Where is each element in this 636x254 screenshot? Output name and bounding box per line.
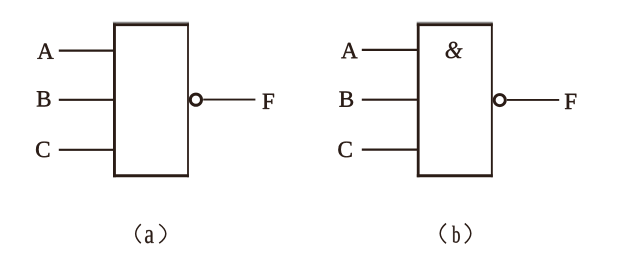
- gate (a) top-edge gray highlight: [113, 22, 189, 24]
- gate (a) body fill: [113, 23, 189, 177]
- wire input A (gate b): [362, 49, 419, 51]
- caption (a) letter a: [145, 230, 154, 243]
- label F (gate b): [565, 94, 576, 109]
- inversion bubble (gate b): [494, 95, 505, 106]
- gate (a) body top edge: [113, 23, 189, 26]
- caption (a) left parenthesis: [136, 224, 141, 243]
- gate (b) body top edge: [417, 23, 493, 26]
- label C (gate a): [36, 142, 49, 158]
- AND symbol &amp; (gate b): [446, 42, 463, 58]
- wire output F (gate b): [507, 99, 559, 101]
- gate (b) top-edge gray highlight: [417, 22, 493, 24]
- label C (gate b): [338, 142, 351, 158]
- gate (a) body right edge: [187, 23, 189, 177]
- label F (gate a): [263, 94, 274, 109]
- caption (a) right parenthesis: [159, 224, 166, 243]
- label B (gate a): [37, 91, 51, 106]
- caption (b) left parenthesis: [440, 224, 446, 244]
- gate (b) body fill: [417, 23, 493, 177]
- label B (gate b): [339, 92, 353, 107]
- wire output F (gate a): [203, 99, 255, 101]
- wire input C (gate a): [59, 149, 115, 151]
- caption (b) right parenthesis: [465, 224, 471, 244]
- wire input C (gate b): [362, 149, 419, 151]
- inversion bubble (gate a): [190, 94, 201, 105]
- gate (b) body left edge: [417, 23, 420, 177]
- gate (b) body right edge: [491, 23, 493, 177]
- caption (b) letter b: [452, 226, 460, 243]
- wire input A (gate a): [59, 49, 115, 51]
- wire input B (gate b): [362, 99, 419, 101]
- label A (gate b): [341, 43, 357, 58]
- wire input B (gate a): [59, 99, 115, 101]
- gate (b) body bottom edge: [417, 174, 493, 177]
- gate (a) body left edge: [113, 23, 116, 177]
- label A (gate a): [37, 43, 53, 58]
- gate (a) body bottom edge: [113, 174, 189, 177]
